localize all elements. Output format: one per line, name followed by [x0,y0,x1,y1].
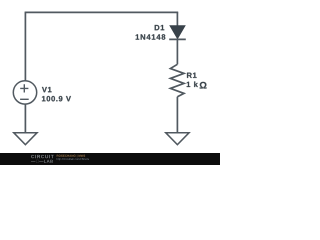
label R1 [187,73,197,78]
label 1 kOhm [187,81,198,87]
ground (left) [14,133,37,145]
voltage source V1 circle [13,81,36,104]
label 100.9 V [42,96,71,101]
diode D1 (filled triangle, cathode down) [170,26,185,39]
footer text line 1 [57,155,85,158]
footer bar [0,153,220,165]
label D1 [155,25,165,30]
ground (right) [166,133,189,145]
footer text line 2 [57,158,89,161]
wire: V1 bottom to left ground [24,104,26,132]
V1 plus sign [20,84,28,92]
wire: top horizontal [25,11,179,13]
wire: right vertical from top corner to diode anode [176,12,178,26]
wire: diode cathode to resistor top [176,39,178,64]
label V1 [42,87,52,92]
resistor R1 zigzag [170,64,184,96]
wire: resistor bottom to right ground [176,97,178,133]
diode D1 cathode bar [169,38,186,40]
V1 minus sign [20,98,29,100]
CircuitLab logo: CIRCUIT [31,155,54,158]
label 1N4148 [136,34,166,39]
CircuitLab logo: LAB with wave [31,160,53,163]
wire: left vertical from top corner to V1 top [24,12,26,81]
